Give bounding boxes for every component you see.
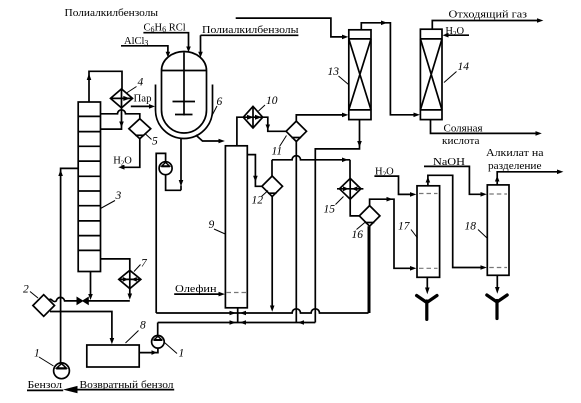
manifold line 1 with hops	[156, 309, 368, 313]
svg-text:Пар: Пар	[134, 94, 152, 105]
svg-text:17: 17	[398, 221, 411, 233]
svg-text:Алкилат на: Алкилат на	[486, 148, 544, 159]
wire reactor pump discharge riser to manifold line 1	[156, 153, 165, 313]
mixer M7	[119, 270, 141, 288]
svg-text:Соляная: Соляная	[444, 124, 483, 135]
label 6	[212, 106, 218, 117]
svg-text:10: 10	[266, 95, 278, 107]
wire C6H6 RCl feed	[143, 33, 188, 47]
wire column 13 overhead to column 14 bottom	[361, 23, 414, 115]
wire distribution line y159.8 with hop over S11 drop	[272, 156, 350, 179]
wire M2 lower line to tank 8	[50, 312, 112, 340]
svg-text:8: 8	[140, 320, 146, 332]
svg-text:кислота: кислота	[442, 136, 480, 147]
label 17 leader	[411, 230, 418, 239]
separator S16	[359, 206, 380, 227]
pump P1 reactor	[159, 162, 172, 175]
svg-text:12: 12	[252, 195, 264, 207]
svg-text:Отходящий газ: Отходящий газ	[449, 10, 528, 21]
svg-text:Полиалкилбензолы: Полиалкилбензолы	[202, 25, 299, 36]
wire wavy from M2 over riser to valve	[49, 297, 78, 301]
separator S5	[129, 119, 151, 139]
wire reactor bottom outlet to reactor pump	[166, 139, 181, 191]
manifold line 2	[158, 322, 316, 324]
label 16 leader	[357, 222, 367, 230]
wire exchanger E4 bottom to column C3 reflux	[101, 108, 122, 129]
wire mixer M7 down to valve line junction	[129, 289, 131, 295]
label 2 leader	[30, 292, 38, 299]
svg-text:6: 6	[217, 96, 223, 108]
svg-text:AlCl3: AlCl3	[124, 36, 148, 48]
svg-text:1: 1	[179, 348, 185, 360]
column C3 trays	[78, 116, 100, 250]
wire exchanger 15 to separator 16	[350, 199, 359, 216]
wire column C3 side draw to mixer 7	[101, 259, 130, 270]
column C9 body	[225, 146, 247, 308]
wire H2O feed into vessel 17	[374, 176, 410, 194]
wire column 13 bottoms down and cross line	[315, 120, 359, 323]
label 3 leader	[101, 201, 116, 209]
column C14 body	[420, 29, 442, 119]
wire reactor side outlet to column C9	[196, 135, 219, 141]
svg-text:5: 5	[152, 136, 158, 148]
svg-text:11: 11	[272, 146, 283, 158]
wire column C9 overhead to exchanger 10	[237, 117, 243, 146]
wire separator S5 bottom to H2O outlet	[124, 139, 140, 168]
pump P1 right	[152, 336, 165, 349]
svg-text:4: 4	[138, 77, 144, 89]
reactor R6 agitator	[173, 53, 196, 116]
label 1 right leader	[165, 343, 178, 354]
wire separator S11 top to column 13 bottom	[296, 115, 342, 121]
wire separator 16 top to vessel 17 lower inlet	[370, 199, 411, 268]
drain Y vessel 18	[496, 275, 498, 288]
label 10 leader	[259, 105, 266, 111]
wire column 14 top to waste gas	[432, 21, 537, 30]
column C13 body	[349, 30, 371, 120]
label 8 leader	[126, 331, 139, 344]
wire AlCl3 feed	[121, 46, 168, 53]
wire column C9 circulation to separator 12	[247, 155, 262, 187]
label 14 leader	[444, 72, 457, 83]
wire NaOH feed into vessel 18	[424, 166, 481, 194]
wire column C3 side vapor to separator 5 (hop over E4 line)	[101, 110, 140, 119]
svg-text:9: 9	[209, 219, 215, 231]
vessel B17	[417, 186, 440, 277]
svg-text:18: 18	[465, 221, 477, 233]
svg-text:Бензол: Бензол	[28, 380, 63, 391]
label 5 leader	[146, 134, 152, 140]
wire separator 11 bottom drop to manifold line 2	[295, 142, 297, 323]
wire separator 12 bottom to manifold line 1	[271, 197, 273, 307]
wire benzene riser into column C3	[61, 168, 79, 363]
svg-text:2: 2	[23, 284, 29, 296]
wire tank 8 to pump P1 right	[139, 348, 158, 353]
svg-text:разделение: разделение	[488, 161, 542, 172]
wire vessel 18 top to alkylate outlet	[497, 172, 557, 185]
wire separator 16 bottom to manifold line 1	[368, 226, 371, 313]
wire pump P1 right up to manifold line 2	[157, 323, 159, 336]
label 15 leader	[336, 197, 344, 205]
wire valve line to junction under mixer 7	[88, 300, 130, 302]
exchanger E10	[243, 106, 262, 128]
svg-text:Возвратный бензол: Возвратный бензол	[80, 380, 174, 391]
label 4 leader	[127, 87, 137, 94]
valve V1	[77, 297, 88, 304]
svg-text:16: 16	[352, 229, 364, 241]
drain Y vessel 17	[426, 277, 428, 288]
exchanger E4	[111, 89, 133, 108]
pump P1 left	[54, 363, 70, 379]
manifold line 1 arrows at column C9 junction	[230, 311, 237, 316]
wire H2O into column 14	[448, 34, 470, 36]
label 11 leader	[280, 136, 287, 147]
svg-text:NaOH: NaOH	[433, 157, 465, 168]
label 7 leader	[134, 265, 141, 272]
separator S11	[286, 121, 306, 141]
reactor R6 jacket	[156, 85, 213, 139]
label 12 leader	[262, 191, 269, 197]
exchanger E15	[340, 178, 361, 199]
label 1 left leader	[39, 357, 54, 366]
label 18 leader	[478, 230, 487, 239]
label 13 leader	[339, 76, 349, 85]
label 9 leader	[214, 229, 225, 234]
wire column C9 bottoms down through manifolds	[237, 308, 239, 323]
reactor R6 dome base line	[162, 70, 207, 72]
svg-text:C6H6 RCl: C6H6 RCl	[144, 23, 186, 35]
wire olefin feed	[174, 293, 219, 295]
wire column 14 bottom to hydrochloric acid outlet	[431, 120, 537, 134]
separator S12	[262, 176, 283, 197]
wire column C3 overhead to exchanger 4	[89, 71, 122, 102]
wire exchanger E10 to separator 11	[263, 117, 286, 131]
wire column C3 bottoms down to valve line	[90, 272, 92, 296]
column C3 body	[78, 102, 100, 272]
svg-text:1: 1	[34, 348, 40, 360]
svg-text:3: 3	[115, 190, 122, 202]
mixer M2 diamond	[33, 295, 55, 317]
svg-text:15: 15	[324, 204, 336, 216]
svg-text:13: 13	[328, 66, 340, 78]
column C9 level dashes	[227, 292, 247, 294]
wire polyalkylbenzene feed 2	[201, 35, 299, 52]
vessel B18	[487, 185, 509, 275]
svg-text:Олефин: Олефин	[175, 284, 217, 295]
manifold line 2 arrows	[230, 320, 237, 325]
reactor R6 vessel	[162, 52, 207, 134]
svg-text:14: 14	[458, 61, 470, 73]
tank T8	[87, 345, 139, 367]
wire vessel 17 top to vessel 18 lower inlet	[428, 175, 481, 267]
wire benzene line (underline) with return arrow	[27, 389, 174, 392]
wire top feed line into column 13	[236, 18, 343, 37]
wire steam (Par) into jacket	[131, 105, 150, 107]
svg-text:Полиалкилбензолы: Полиалкилбензолы	[65, 8, 159, 19]
